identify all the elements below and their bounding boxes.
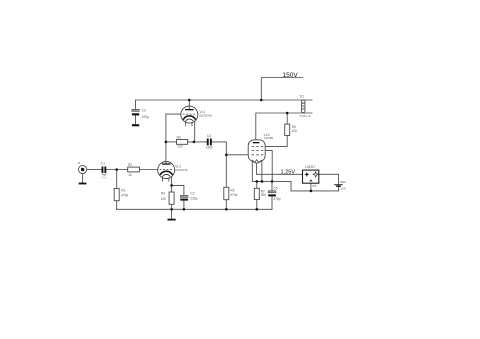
capacitor C2 electrolytic: [132, 109, 149, 119]
triode VL1: [181, 106, 212, 126]
svg-text:100n: 100n: [101, 176, 108, 180]
resistor R6: [285, 124, 298, 135]
wire C3 to ground bus: [183, 201, 185, 210]
ground below jack: [79, 183, 87, 185]
svg-text:100µ: 100µ: [142, 115, 149, 119]
wire LM317 out to battery: [319, 174, 339, 184]
resistor R4: [161, 191, 174, 204]
svg-text:6S31N-B: 6S31N-B: [175, 168, 187, 172]
svg-text:R5: R5: [230, 188, 234, 192]
node junction dots: [115, 99, 312, 211]
wire C5 leads: [271, 181, 273, 190]
wire R6 leads: [286, 113, 288, 124]
svg-text:C4: C4: [207, 134, 211, 138]
wire VL3 anode to transformer: [256, 113, 312, 142]
svg-text:1.25V: 1.25V: [281, 169, 296, 175]
svg-text:120: 120: [161, 197, 167, 201]
svg-text:470k: 470k: [121, 193, 128, 197]
wire B+ rail: [136, 99, 313, 101]
connector P input jack: [78, 161, 87, 173]
svg-text:Batt: Batt: [341, 180, 347, 184]
svg-text:220µ: 220µ: [190, 197, 197, 201]
wire node IN down to R1: [116, 170, 118, 189]
wire battery to adj line: [338, 186, 340, 191]
resistor R3: [177, 135, 188, 148]
wire VL1 cathode lead: [194, 119, 196, 142]
resistor R2: [128, 163, 140, 177]
wire filament lead centre: [256, 163, 258, 175]
wire C1 to node IN to R2: [106, 169, 127, 171]
regulator U1 LM317: [303, 165, 319, 187]
wire R3 to C4: [188, 141, 207, 143]
wire 1.25V line: [257, 173, 303, 175]
svg-text:Tr1: Tr1: [300, 95, 305, 99]
svg-text:150V: 150V: [283, 72, 299, 79]
wire R4 leads: [171, 185, 173, 192]
svg-text:390: 390: [261, 193, 267, 197]
wire cathode node to C3: [172, 185, 184, 195]
wire VL3 g3 to filament bus: [265, 151, 272, 182]
svg-text:R4: R4: [161, 191, 165, 195]
svg-text:C5: C5: [274, 186, 278, 190]
svg-text:220n: 220n: [206, 146, 213, 150]
battery Batt: [334, 180, 346, 191]
wire VL2 anode to VL1 grid: [166, 114, 181, 162]
svg-text:R1: R1: [121, 188, 125, 192]
wire jack ground stub: [82, 174, 84, 183]
triode VL2: [158, 162, 188, 182]
resistor R1: [114, 188, 128, 200]
svg-text:C3: C3: [190, 192, 194, 196]
svg-text:adj: adj: [312, 183, 316, 187]
wire input jack to C1: [87, 169, 102, 171]
svg-text:C2: C2: [142, 109, 146, 113]
svg-text:1P24B: 1P24B: [264, 136, 273, 140]
svg-text:6S31N-B: 6S31N-B: [200, 114, 212, 118]
wire filament bus to LM317 adj: [252, 181, 338, 191]
wire C2 leads: [135, 100, 137, 109]
wire R1 to ground bus: [116, 201, 118, 210]
wire filament lead right: [261, 161, 263, 181]
svg-text:100: 100: [292, 129, 298, 133]
wire node to VL3 grid: [226, 154, 248, 156]
resistor R5: [224, 187, 238, 199]
svg-text:470k: 470k: [230, 193, 237, 197]
wire node to R3: [166, 141, 177, 143]
wire filament lead left: [251, 161, 253, 181]
ground below C2: [132, 124, 139, 126]
transformer Tr1: [300, 95, 311, 119]
wire LM317 adj pin: [310, 183, 312, 191]
wire ground bus: [117, 208, 272, 210]
resistor R7: [254, 188, 266, 199]
wire VL1 anode lead: [188, 100, 190, 110]
wire R2 to VL2 grid: [139, 169, 158, 171]
svg-text:R2: R2: [128, 163, 132, 167]
wire C4 to R5 column: [212, 142, 227, 187]
capacitor C1: [101, 162, 108, 180]
wire VL2 cathode lead: [171, 174, 173, 185]
svg-text:470µ: 470µ: [273, 197, 280, 201]
wire ground stub: [171, 209, 173, 218]
capacitor C4: [206, 134, 213, 150]
svg-text:12V: 12V: [341, 187, 346, 191]
svg-text:LM317: LM317: [305, 165, 315, 169]
svg-text:120: 120: [177, 145, 183, 149]
capacitor C3 electrolytic: [180, 192, 197, 201]
svg-text:C1: C1: [101, 162, 105, 166]
pentode VL3: [248, 133, 273, 163]
svg-text:1k: 1k: [128, 173, 132, 177]
wire R7 leads: [256, 181, 258, 188]
svg-text:TVZ-1-9: TVZ-1-9: [300, 114, 311, 118]
wire R5 to ground bus: [225, 200, 227, 210]
capacitor C5 electrolytic: [268, 186, 280, 201]
svg-text:R3: R3: [177, 135, 181, 139]
wire 150V stub: [261, 78, 302, 101]
ground below bus: [168, 219, 176, 221]
